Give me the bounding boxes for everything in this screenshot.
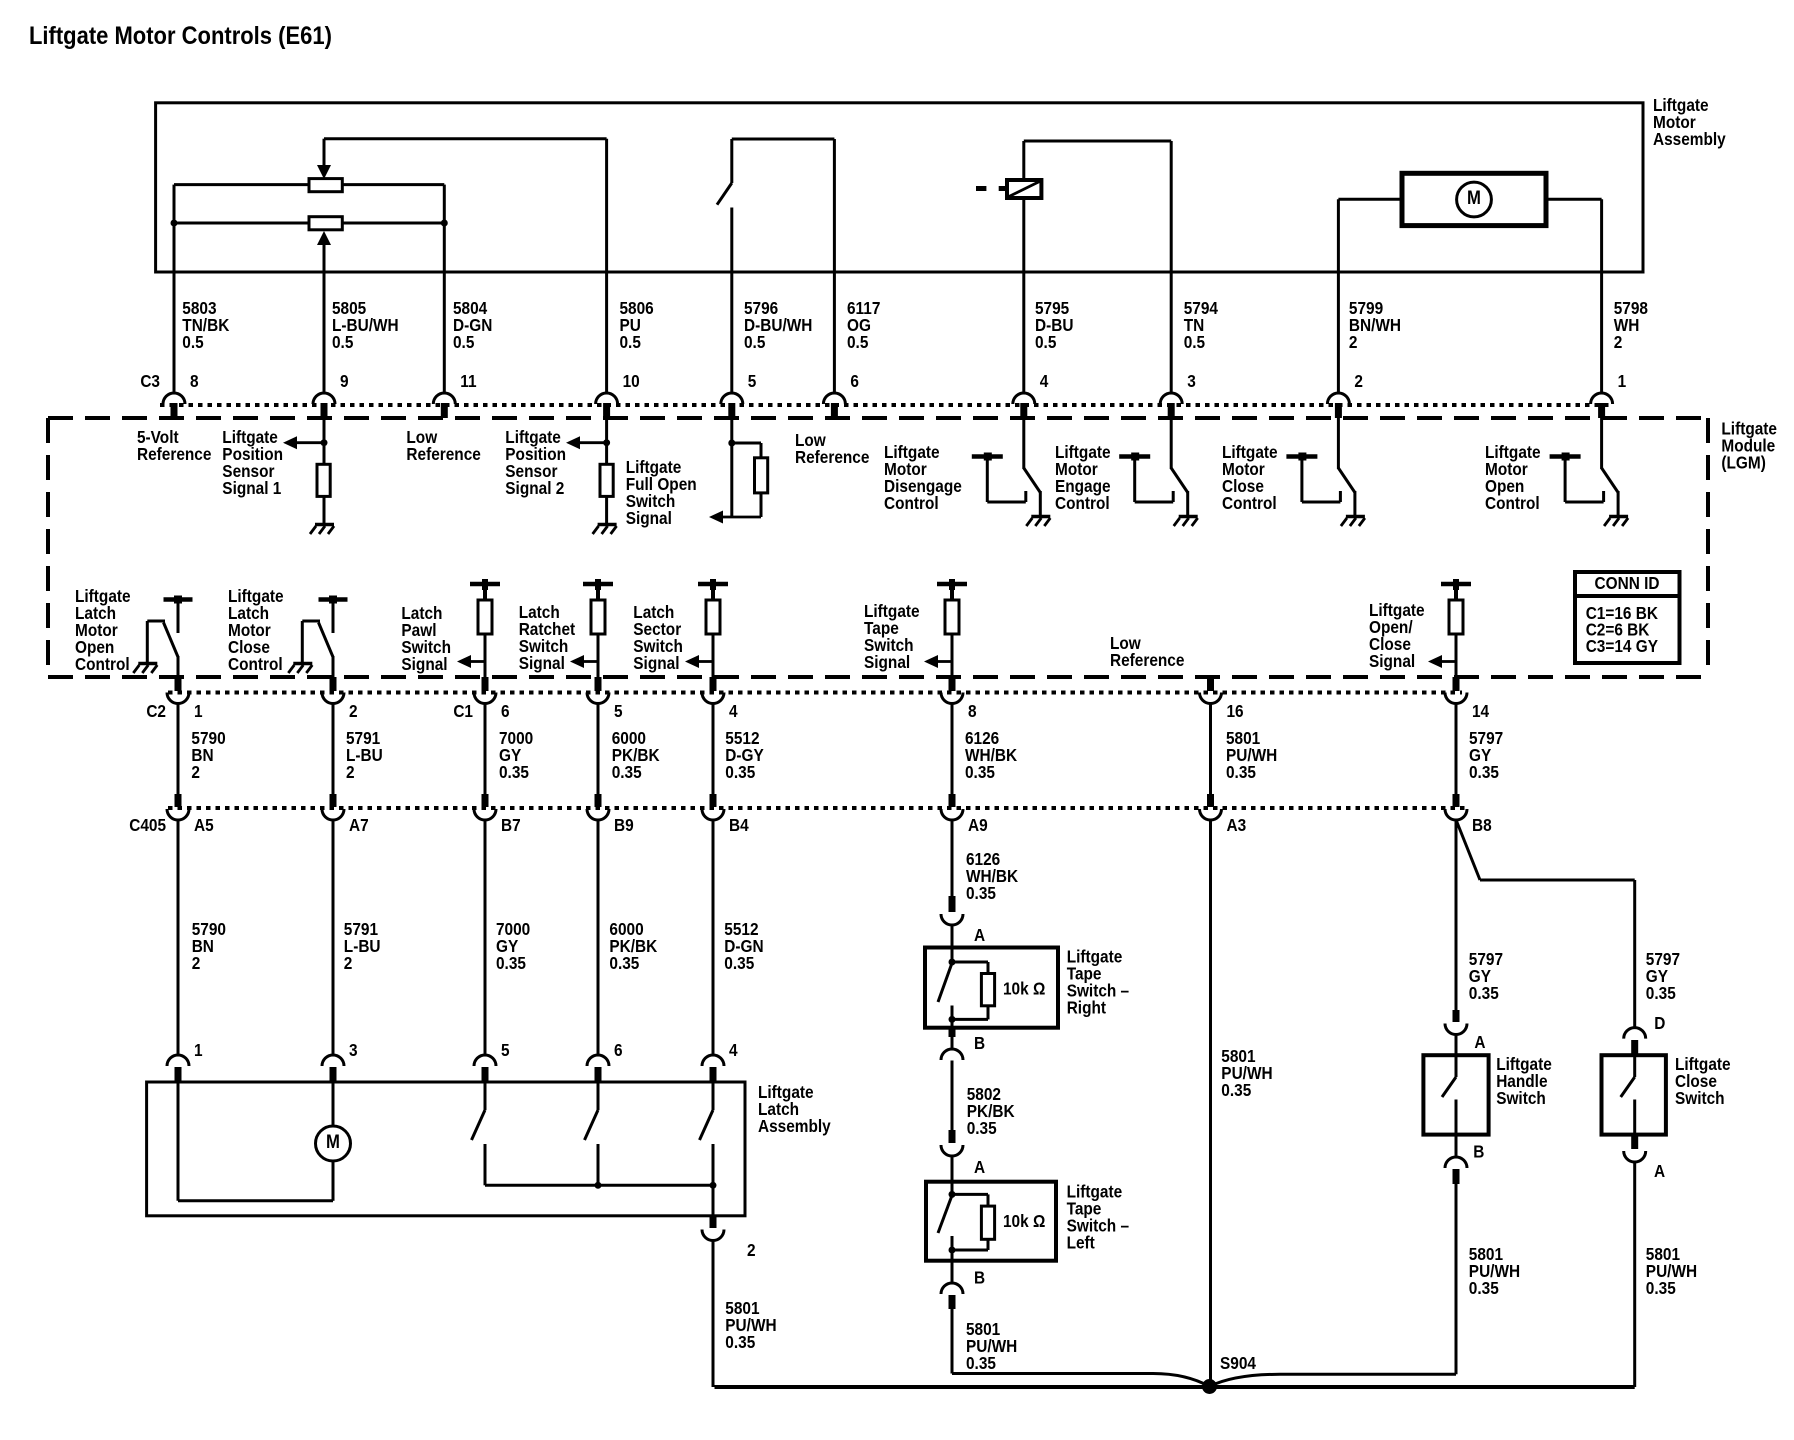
- svg-text:B: B: [974, 1034, 985, 1053]
- pin C3-10 terminal: [596, 393, 618, 404]
- svg-text:B4: B4: [729, 816, 749, 835]
- pin C2/C1-6 terminal: [482, 677, 489, 691]
- position sensor element R1: [309, 179, 342, 192]
- svg-text:0.5: 0.5: [620, 333, 641, 352]
- pin C3-4 terminal: [1013, 393, 1035, 404]
- svg-text:9: 9: [340, 372, 349, 391]
- svg-text:A: A: [1474, 1033, 1485, 1052]
- svg-text:1: 1: [1618, 372, 1627, 391]
- svg-text:Signal 1: Signal 1: [222, 479, 281, 498]
- svg-text:0.35: 0.35: [967, 1119, 997, 1138]
- latch assembly pin 1 terminal: [167, 1055, 189, 1066]
- connector C405 dotted row: [168, 806, 1468, 810]
- svg-text:Reference: Reference: [1110, 651, 1184, 670]
- svg-text:5: 5: [748, 372, 757, 391]
- pin C405-A9 terminal: [949, 794, 956, 807]
- svg-text:Control: Control: [884, 494, 939, 513]
- latch assembly pin 3 terminal: [322, 1055, 344, 1066]
- svg-text:M: M: [326, 1131, 340, 1152]
- svg-text:Signal: Signal: [1369, 652, 1415, 671]
- liftgate latch motor close control driver (C2-2): [332, 600, 335, 634]
- wire 5797 branch to close switch: [1457, 821, 1481, 880]
- liftgate motor open control driver (pin 1): [1600, 418, 1603, 469]
- svg-text:2: 2: [349, 702, 358, 721]
- resistor pin 9 pulldown: [317, 464, 330, 496]
- wire 5801 latch pin 2 to S904 rail: [712, 1241, 715, 1388]
- liftgate motor clutch solenoid: [1024, 140, 1171, 143]
- svg-text:B7: B7: [501, 816, 521, 835]
- wire R1 left lead to pin 8 node: [174, 183, 309, 186]
- wire 5801 low reference A3 to S904: [1209, 820, 1212, 1386]
- wire full open switch to pin 6: [833, 139, 836, 393]
- svg-text:B: B: [974, 1269, 985, 1288]
- resistor pin 10 pulldown: [600, 464, 613, 496]
- latch sector switch (pin 4): [712, 1082, 715, 1110]
- svg-text:A9: A9: [968, 816, 988, 835]
- svg-text:0.35: 0.35: [609, 954, 639, 973]
- svg-text:C405: C405: [129, 816, 166, 835]
- pin C2/C1-16 terminal: [1207, 677, 1214, 691]
- svg-text:M: M: [1467, 187, 1481, 208]
- svg-text:C3: C3: [140, 372, 160, 391]
- connector C3 dotted row: [160, 403, 1610, 407]
- wire 6126 A9 down: [951, 820, 954, 896]
- ground pin 9: [315, 523, 334, 527]
- wire 5801 handle to S904: [1455, 1184, 1458, 1374]
- latch assembly pin 4 terminal: [702, 1055, 724, 1066]
- splice S904: [1202, 1379, 1217, 1394]
- svg-text:0.35: 0.35: [725, 763, 755, 782]
- position sensor wiper 1 arrow: [323, 139, 326, 166]
- svg-text:C1: C1: [453, 702, 473, 721]
- svg-text:0.35: 0.35: [1226, 763, 1256, 782]
- svg-text:4: 4: [729, 702, 738, 721]
- liftgate motor disengage control driver (pin 4): [1022, 418, 1025, 469]
- svg-text:0.35: 0.35: [966, 884, 996, 903]
- svg-text:0.35: 0.35: [612, 763, 642, 782]
- svg-text:Reference: Reference: [406, 445, 480, 464]
- wire S904 ground rail: [715, 1385, 1635, 1389]
- svg-text:Reference: Reference: [795, 448, 869, 467]
- node junction right: [441, 220, 448, 227]
- pin C405-B8 terminal: [1453, 794, 1460, 807]
- pin C3-6 terminal: [823, 393, 845, 404]
- svg-text:0.5: 0.5: [453, 333, 474, 352]
- svg-text:0.35: 0.35: [499, 763, 529, 782]
- pin C2/C1-1 terminal: [175, 677, 182, 691]
- Liftgate Latch Assembly box: [147, 1082, 745, 1216]
- svg-text:B9: B9: [614, 816, 634, 835]
- Liftgate Motor Assembly box: [156, 103, 1643, 272]
- svg-text:Signal: Signal: [626, 509, 672, 528]
- liftgate position sensor signal 2 input (pin 10): [605, 418, 608, 464]
- svg-text:Signal: Signal: [401, 655, 447, 674]
- wire resistor to ground: [605, 496, 608, 523]
- svg-text:Switch: Switch: [1675, 1089, 1725, 1108]
- svg-text:0.5: 0.5: [182, 333, 203, 352]
- latch motor M: [316, 1126, 351, 1161]
- pin C2/C1-5 terminal: [595, 677, 602, 691]
- svg-text:Assembly: Assembly: [1653, 130, 1726, 149]
- svg-text:5: 5: [614, 702, 623, 721]
- liftgate latch motor open control driver (C2-1): [177, 600, 180, 634]
- latch pawl switch (pin 5): [484, 1082, 487, 1110]
- svg-text:A7: A7: [349, 816, 369, 835]
- handle switch contacts: [1455, 1055, 1458, 1077]
- splice wing right to handle switch wire: [1210, 1374, 1281, 1386]
- svg-text:16: 16: [1227, 702, 1244, 721]
- svg-text:2: 2: [1349, 333, 1358, 352]
- svg-text:4: 4: [729, 1041, 738, 1060]
- svg-text:1: 1: [194, 1041, 203, 1060]
- svg-text:0.5: 0.5: [744, 333, 765, 352]
- wire R2 left lead: [174, 222, 309, 225]
- latch switches common rail: [485, 1184, 713, 1187]
- svg-text:6: 6: [850, 372, 859, 391]
- Liftgate Tape Switch Left box: [926, 1182, 1056, 1261]
- svg-text:10: 10: [623, 372, 640, 391]
- wire latch common to pin 2: [712, 1185, 715, 1216]
- svg-text:4: 4: [1040, 372, 1049, 391]
- svg-text:2: 2: [191, 763, 200, 782]
- svg-text:0.5: 0.5: [1184, 333, 1205, 352]
- wire 5802 PK/BK: [951, 1061, 954, 1131]
- svg-text:Control: Control: [1222, 494, 1277, 513]
- wire latch motor return to pin 1: [177, 1082, 180, 1201]
- liftgate motor M: [1402, 173, 1546, 225]
- pin C2/C1-8 terminal: [949, 677, 956, 691]
- svg-text:Signal: Signal: [864, 653, 910, 672]
- wires C2/C1 to C405: [177, 704, 180, 795]
- svg-text:6: 6: [501, 702, 510, 721]
- svg-text:A: A: [1654, 1162, 1665, 1181]
- liftgate motor engage control driver (pin 3): [1170, 418, 1173, 469]
- CONN ID table: [1575, 572, 1680, 663]
- resistor 10k tape right: [952, 961, 988, 964]
- position sensor element R2: [309, 217, 342, 230]
- inline connector A (close switch): [1631, 1135, 1638, 1149]
- Liftgate Module (LGM) dashed border: [48, 416, 1708, 420]
- svg-text:Control: Control: [1055, 494, 1110, 513]
- svg-text:A3: A3: [1227, 816, 1247, 835]
- svg-text:CONN ID: CONN ID: [1595, 574, 1660, 593]
- svg-text:10k Ω: 10k Ω: [1003, 980, 1045, 999]
- svg-text:2: 2: [344, 954, 353, 973]
- tape switch left contacts: [951, 1182, 954, 1195]
- svg-text:Switch: Switch: [1496, 1089, 1546, 1108]
- inline connector B (handle switch): [1455, 1135, 1458, 1157]
- svg-text:2: 2: [1354, 372, 1363, 391]
- svg-text:Assembly: Assembly: [758, 1117, 831, 1136]
- svg-text:Liftgate Motor Controls (E61): Liftgate Motor Controls (E61): [29, 22, 332, 50]
- latch sector switch signal input (C1-4): [698, 582, 728, 587]
- wire low reference to pin 11: [443, 223, 446, 393]
- svg-text:1: 1: [194, 702, 203, 721]
- pin C3-1 terminal: [1591, 393, 1613, 404]
- svg-text:3: 3: [349, 1041, 358, 1060]
- pin C3-5 terminal: [721, 393, 743, 404]
- svg-text:B: B: [1473, 1143, 1484, 1162]
- wire resistor to ground: [323, 496, 326, 523]
- wire motor to pin 1: [1546, 198, 1602, 201]
- wire 5797 B8 to handle switch: [1455, 820, 1458, 1010]
- svg-text:S904: S904: [1220, 1354, 1257, 1373]
- svg-text:(LGM): (LGM): [1721, 454, 1765, 473]
- wires C405 to liftgate latch assembly: [177, 820, 180, 1055]
- pin C405-A7 terminal: [330, 794, 337, 807]
- svg-text:0.35: 0.35: [1469, 763, 1499, 782]
- svg-text:A5: A5: [194, 816, 214, 835]
- latch pawl switch signal input (C1-6): [470, 582, 500, 587]
- pin C2/C1-14 terminal: [1453, 677, 1460, 691]
- svg-text:5: 5: [501, 1041, 510, 1060]
- inline connector A (tape left): [949, 1130, 956, 1143]
- inline connector D (close switch): [1624, 1028, 1646, 1039]
- svg-text:0.35: 0.35: [496, 954, 526, 973]
- node junction left: [171, 220, 178, 227]
- wire 5801 tape left to S904: [951, 1309, 954, 1374]
- svg-text:0.35: 0.35: [1469, 984, 1499, 1003]
- latch ratchet switch (pin 6): [597, 1082, 600, 1110]
- liftgate full open switch: [732, 138, 835, 141]
- svg-text:8: 8: [190, 372, 199, 391]
- pin C405-B7 terminal: [482, 794, 489, 807]
- inline connector A (handle switch): [1453, 1010, 1460, 1022]
- wire 5801 close to S904 rail: [1633, 1162, 1636, 1387]
- svg-text:B8: B8: [1472, 816, 1492, 835]
- svg-text:3: 3: [1187, 372, 1196, 391]
- svg-text:D: D: [1654, 1014, 1665, 1033]
- svg-text:Control: Control: [75, 655, 130, 674]
- pin C405-B4 terminal: [710, 794, 717, 807]
- svg-text:6: 6: [614, 1041, 623, 1060]
- svg-text:0.5: 0.5: [847, 333, 868, 352]
- ground pin 10: [598, 523, 617, 527]
- pin C2/C1-2 terminal: [330, 677, 337, 691]
- pin C405-A3 terminal: [1207, 794, 1214, 807]
- latch ratchet switch signal input (C1-5): [583, 582, 613, 587]
- tape switch right contacts: [951, 948, 954, 963]
- svg-text:A: A: [974, 926, 985, 945]
- svg-text:Right: Right: [1067, 999, 1107, 1018]
- svg-text:2: 2: [1614, 333, 1623, 352]
- svg-text:A: A: [974, 1158, 985, 1177]
- pin C3-8 terminal: [163, 393, 185, 404]
- svg-text:8: 8: [968, 702, 977, 721]
- pin C3-11 terminal: [433, 393, 455, 404]
- svg-text:Signal: Signal: [519, 654, 565, 673]
- svg-text:11: 11: [460, 372, 476, 391]
- liftgate position sensor signal 1 input (pin 9): [323, 418, 326, 464]
- liftgate full open switch signal input (pin 5): [730, 418, 733, 517]
- wire R1 right lead to pin 11 node: [342, 183, 444, 186]
- svg-text:14: 14: [1472, 702, 1490, 721]
- latch assembly pin 6 terminal: [587, 1055, 609, 1066]
- pin C3-2 terminal: [1327, 393, 1349, 404]
- svg-text:0.35: 0.35: [965, 763, 995, 782]
- svg-text:10k Ω: 10k Ω: [1003, 1212, 1045, 1231]
- svg-text:0.5: 0.5: [1035, 333, 1056, 352]
- resistor pin 5: [755, 458, 768, 493]
- svg-text:C2: C2: [146, 702, 166, 721]
- wire solenoid to pin 4: [1022, 198, 1025, 393]
- close switch contacts: [1633, 1055, 1636, 1077]
- wire R2 right lead: [342, 222, 444, 225]
- wire solenoid to pin 3: [1170, 141, 1173, 393]
- svg-text:Reference: Reference: [137, 445, 211, 464]
- svg-text:Left: Left: [1067, 1234, 1096, 1253]
- liftgate position sensor wiper rail (to pin 10): [324, 137, 607, 140]
- pin C405-A5 terminal: [175, 794, 182, 807]
- svg-text:Signal: Signal: [633, 654, 679, 673]
- svg-text:0.35: 0.35: [1221, 1081, 1251, 1100]
- svg-text:2: 2: [346, 763, 355, 782]
- position sensor wiper 2 arrow (signal 1 to pin 9): [317, 231, 331, 245]
- svg-text:0.5: 0.5: [332, 333, 353, 352]
- svg-text:C3=14 GY: C3=14 GY: [1586, 637, 1658, 656]
- pin C3-9 terminal: [313, 393, 335, 404]
- pin C405-B9 terminal: [595, 794, 602, 807]
- Liftgate Tape Switch Right box: [925, 948, 1058, 1028]
- pin C3-3 terminal: [1160, 393, 1182, 404]
- connector C2/C1 dotted row: [168, 691, 1462, 695]
- svg-text:Control: Control: [1485, 494, 1540, 513]
- resistor 10k tape left: [952, 1193, 988, 1196]
- svg-text:2: 2: [192, 954, 201, 973]
- svg-text:Control: Control: [228, 655, 283, 674]
- svg-text:0.35: 0.35: [725, 1333, 755, 1352]
- Liftgate Handle Switch box: [1423, 1055, 1488, 1134]
- inline connector B (tape left): [951, 1261, 954, 1283]
- inline connector A (tape right): [949, 896, 956, 912]
- liftgate motor close control driver (pin 2): [1337, 418, 1340, 469]
- svg-text:0.35: 0.35: [1646, 984, 1676, 1003]
- svg-text:2: 2: [747, 1241, 756, 1260]
- pin C2/C1-4 terminal: [710, 677, 717, 691]
- svg-text:0.35: 0.35: [966, 1354, 996, 1373]
- wire 5-volt reference to pin 8: [173, 223, 176, 393]
- latch assembly pin 5 terminal: [474, 1055, 496, 1066]
- svg-text:0.35: 0.35: [724, 954, 754, 973]
- liftgate tape switch signal input (pin 8): [937, 582, 967, 587]
- inline connector B (tape right): [949, 1028, 956, 1037]
- wire motor to pin 2: [1338, 198, 1402, 201]
- Liftgate Close Switch box: [1602, 1055, 1666, 1134]
- svg-text:0.35: 0.35: [1646, 1279, 1676, 1298]
- svg-text:Signal 2: Signal 2: [505, 479, 564, 498]
- liftgate open/close signal input (pin 14): [1441, 582, 1471, 587]
- svg-text:0.35: 0.35: [1469, 1279, 1499, 1298]
- latch assembly pin 2 terminal: [710, 1216, 717, 1228]
